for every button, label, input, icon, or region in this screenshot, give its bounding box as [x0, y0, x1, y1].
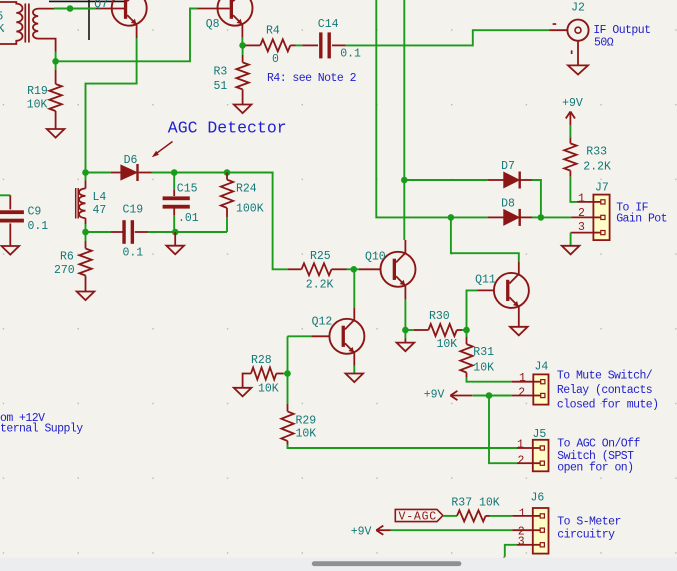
pin R4 right	[290, 44, 295, 46]
node R24 top junction	[224, 169, 231, 176]
pin R37 right	[486, 515, 490, 517]
svg-text:0.1: 0.1	[123, 247, 144, 260]
svg-text:R33: R33	[586, 146, 607, 159]
svg-text:10K: 10K	[473, 361, 494, 374]
svg-text:270: 270	[54, 264, 75, 277]
svg-text:J4: J4	[535, 360, 549, 373]
pin J4-2	[512, 395, 534, 397]
pin Q7 emitter	[136, 25, 138, 38]
svg-text:1: 1	[519, 372, 526, 385]
svg-text:3: 3	[518, 535, 525, 548]
pin D6 anode	[111, 172, 121, 174]
wire Q12 base down	[287, 336, 289, 373]
node Q8 emitter junction	[239, 42, 246, 49]
svg-text:closed for mute): closed for mute)	[557, 399, 659, 412]
svg-text:2: 2	[518, 454, 525, 467]
wire D8 junction to Q11 collector	[451, 217, 519, 262]
svg-text:R29: R29	[296, 414, 317, 427]
svg-text:51: 51	[214, 80, 228, 93]
transistor Q12	[329, 319, 364, 354]
wire V-AGC to R37	[443, 515, 457, 517]
svg-text:R4: R4	[266, 24, 280, 37]
wire R19 top	[55, 61, 57, 70]
pin R28 right	[276, 373, 283, 375]
pin J2 shield	[577, 41, 579, 66]
pin number J2-1 tick	[553, 23, 557, 25]
wire R4 to C14	[296, 44, 303, 46]
resistor R25	[302, 263, 332, 275]
wire bus vertical to D7/Q10	[403, 0, 405, 240]
svg-text:2.2K: 2.2K	[583, 161, 611, 174]
pin R19 bottom	[55, 111, 57, 129]
pin J2 center	[549, 29, 567, 31]
capacitor C9	[0, 210, 24, 214]
wire R29 to J5 pin1	[288, 445, 518, 449]
svg-text:0: 0	[272, 53, 279, 66]
svg-text:C9: C9	[28, 206, 42, 219]
svg-text:Q12: Q12	[312, 315, 333, 328]
pin C15 top	[173, 190, 175, 196]
svg-text:To Mute Switch/: To Mute Switch/	[557, 370, 653, 383]
svg-text:IF Output: IF Output	[593, 24, 650, 37]
svg-text:+9V: +9V	[351, 526, 372, 539]
node Q10 base junction	[351, 266, 358, 273]
svg-text:R37 10K: R37 10K	[451, 496, 499, 509]
node C15 top junction	[171, 169, 178, 176]
svg-text:To S-Meter: To S-Meter	[557, 516, 621, 529]
connector J2 BNC	[567, 20, 588, 41]
pin R4 left	[245, 44, 260, 46]
capacitor C19	[122, 220, 125, 244]
pin L4 top	[85, 181, 87, 189]
wire Q10 emitter down	[404, 299, 406, 330]
pin R33 top	[569, 137, 571, 143]
power +9V arrow (J6)	[376, 529, 390, 531]
ground below J2	[568, 65, 588, 74]
pin R30 right	[457, 329, 462, 331]
resistor R19	[49, 84, 61, 111]
pin J7-1	[577, 201, 593, 203]
wire R28 right	[283, 373, 288, 375]
svg-text:0.1: 0.1	[28, 220, 49, 233]
wire C9 top	[0, 194, 10, 196]
pin Q11 base	[478, 289, 494, 291]
wire J6 pin3	[505, 545, 517, 557]
wire Q8 emitter node	[241, 38, 243, 46]
pin R28 left and ground stem	[243, 374, 251, 388]
ground below Q10	[397, 343, 415, 352]
diode D8	[504, 210, 519, 225]
svg-text:.01: .01	[178, 212, 199, 225]
svg-text:R4: see Note 2: R4: see Note 2	[267, 72, 357, 85]
pin D6 cathode	[139, 172, 152, 174]
ground below C15 node	[166, 246, 184, 255]
wire C19 right	[148, 231, 175, 233]
diode D6	[121, 165, 137, 180]
node R19 top junction	[52, 58, 59, 65]
pin R25 right	[332, 268, 347, 270]
wire R3 top	[242, 45, 244, 55]
wire C15 node to R24 bottom	[175, 231, 227, 233]
svg-text:R30: R30	[429, 310, 450, 323]
wire J7 pin3 to ground	[570, 233, 572, 246]
wire Q10 emitter to ground	[404, 330, 406, 339]
pin R33 bottom	[569, 171, 571, 177]
wire +9V to J6 pin2	[391, 529, 513, 531]
pin Q12 collector	[353, 307, 355, 321]
transformer T5 left winding	[0, 2, 23, 44]
ground below Q11	[510, 327, 528, 336]
node D7 branch junction	[401, 177, 408, 184]
svg-text:50Ω: 50Ω	[594, 37, 614, 50]
wire J4 pin2 branch to J5 pin2	[489, 396, 517, 464]
wire R37 to J6 pin1	[490, 515, 513, 517]
pin R6 top	[85, 241, 87, 249]
scrollbar handle	[312, 561, 462, 566]
svg-text:R24: R24	[236, 182, 257, 195]
transistor Q8	[218, 0, 253, 26]
pin Q10 base	[359, 268, 381, 270]
wire Q7 emitter to D6 node	[86, 38, 137, 173]
wire R30 left	[405, 329, 414, 331]
transformer T5 right winding	[33, 9, 56, 52]
svg-text:ternal Supply: ternal Supply	[0, 423, 83, 436]
svg-text:10K: 10K	[296, 427, 317, 440]
pin Q11 emitter	[518, 307, 520, 327]
pin R31 top	[466, 337, 468, 344]
node J4 pin2 junction	[486, 392, 493, 399]
svg-text:C14: C14	[318, 18, 339, 31]
pin R29 bottom	[287, 441, 289, 445]
connector J5	[533, 440, 549, 472]
wire R30 right	[462, 329, 467, 331]
pin C14 right	[332, 44, 346, 46]
pin D7 anode	[488, 179, 504, 181]
pin Q11 collector	[518, 262, 520, 274]
capacitor C15	[163, 196, 190, 200]
svg-text:3: 3	[578, 221, 585, 234]
connector J7	[593, 195, 609, 241]
pin L4 bottom	[85, 218, 87, 224]
diode D7	[504, 172, 519, 187]
wire Q11 base	[467, 290, 478, 330]
svg-text:0.1: 0.1	[340, 47, 361, 60]
pin J6-1	[512, 515, 532, 517]
svg-text:J2: J2	[571, 1, 585, 14]
inductor L4	[79, 189, 86, 219]
ground below Q12	[346, 374, 364, 383]
power +9V arrow (R33)	[569, 112, 571, 126]
pin R30 left	[414, 329, 428, 331]
pin C9 top	[9, 195, 11, 209]
ground below R19	[47, 129, 65, 138]
wire +9V to J4 pin2	[473, 395, 512, 397]
wire L4 top	[85, 173, 87, 181]
pin R3 top	[242, 55, 244, 62]
transformer T5 core	[24, 4, 26, 43]
svg-text:J7: J7	[595, 182, 609, 195]
svg-text:+9V: +9V	[424, 389, 445, 402]
svg-text:R25: R25	[310, 250, 331, 263]
wire Q10 base node to Q12 collector	[353, 269, 356, 307]
node D6 anode junction	[82, 169, 89, 176]
node C15 bottom junction	[172, 229, 179, 236]
transistor Q7	[112, 0, 147, 26]
svg-text:open for on): open for on)	[557, 461, 633, 474]
resistor R29	[281, 411, 293, 441]
svg-text:circuitry: circuitry	[557, 528, 615, 541]
pin J5-2	[517, 462, 533, 464]
svg-text:R31: R31	[473, 346, 494, 359]
pin R24 top	[226, 173, 228, 180]
svg-text:5: 5	[0, 11, 3, 24]
pin ground stem C15 node	[174, 232, 176, 246]
wire junction to Q10 base	[354, 268, 359, 270]
node Q11 base junction	[463, 327, 470, 334]
resistor R33	[564, 143, 576, 170]
pin R31 bottom	[466, 373, 468, 378]
resistor R30	[428, 324, 456, 336]
wire C19 left	[86, 231, 112, 233]
svg-text:R19: R19	[27, 85, 48, 98]
pin R29 top	[287, 404, 289, 411]
wire Q12 base left	[288, 335, 312, 337]
node D8 anode junction	[448, 214, 455, 221]
wire R24 bottom	[226, 217, 228, 232]
wire J6 pin3 tail	[503, 557, 505, 561]
ground below J7 pin3	[562, 246, 580, 255]
resistor R6	[79, 249, 91, 276]
svg-text:1: 1	[517, 438, 524, 451]
wire R31 top	[466, 330, 468, 337]
pin D8 cathode	[520, 216, 532, 218]
pin R24 bottom	[226, 208, 228, 218]
resistor R31	[460, 344, 472, 372]
global label V-AGC	[395, 509, 443, 521]
wire Q12 emitter	[353, 366, 355, 374]
svg-text:Q8: Q8	[206, 18, 220, 31]
node C19 left junction	[82, 229, 89, 236]
svg-text:C15: C15	[177, 182, 198, 195]
svg-text:K: K	[0, 23, 4, 36]
wire bus vertical to D8	[376, 0, 451, 217]
svg-text:2: 2	[578, 207, 585, 220]
node Q10 emitter junction	[402, 327, 409, 334]
pin C9 bottom	[9, 223, 11, 246]
svg-text:D6: D6	[124, 154, 138, 167]
pin Q10 collector	[404, 240, 406, 253]
svg-text:100K: 100K	[236, 202, 264, 215]
pin J5-1	[517, 447, 533, 449]
ground below R6	[77, 292, 95, 301]
wire D6 cathode to R25 drop	[152, 173, 289, 270]
wire R6 top	[85, 232, 87, 241]
pin D7 cathode	[520, 179, 532, 181]
wire AGC feedback to Q8 base	[56, 9, 198, 62]
svg-text:AGC Detector: AGC Detector	[168, 118, 287, 137]
svg-text:L4: L4	[93, 191, 107, 204]
pin number J2-2 tick	[571, 50, 573, 54]
svg-text:J6: J6	[531, 492, 545, 505]
connector J6	[533, 508, 549, 554]
resistor R28	[251, 368, 276, 380]
pin R19 top	[55, 70, 57, 84]
wire to D8 anode	[451, 216, 488, 218]
wire to D7 anode	[404, 179, 488, 181]
pin Q10 emitter	[404, 286, 406, 300]
svg-text:C19: C19	[123, 204, 144, 217]
power +9V arrow (J4)	[450, 395, 472, 397]
pin J6-3	[517, 544, 533, 546]
resistor R24	[221, 180, 233, 208]
wire to D6 anode	[86, 172, 111, 174]
pin Q12 emitter	[353, 353, 355, 366]
svg-text:10K: 10K	[437, 338, 458, 351]
svg-text:D7: D7	[501, 160, 515, 173]
transistor Q11	[494, 273, 529, 308]
pin Q12 base	[311, 335, 329, 337]
wire transformer to Q7 base	[54, 8, 96, 10]
pin C19 right	[135, 231, 148, 233]
pin C15 bottom	[173, 209, 175, 216]
resistor R3	[236, 62, 248, 89]
ground below C9	[2, 246, 20, 255]
svg-text:1: 1	[519, 507, 526, 520]
resistor R4	[260, 39, 290, 51]
svg-text:R28: R28	[251, 354, 272, 367]
pin D8 anode	[488, 216, 504, 218]
svg-text:Relay (contacts: Relay (contacts	[557, 384, 652, 397]
pin R6 bottom	[85, 276, 87, 292]
pin J6-2	[512, 529, 532, 531]
pin R25 left	[288, 268, 302, 270]
svg-text:10K: 10K	[258, 383, 279, 396]
svg-text:R6: R6	[60, 251, 74, 264]
wire C15 top	[173, 173, 175, 191]
transistor Q10	[381, 252, 416, 287]
wire D8 cathode node	[532, 216, 541, 218]
svg-text:Q7: Q7	[94, 0, 108, 11]
scrollbar track	[0, 558, 677, 571]
wire R25 to junction	[347, 268, 354, 270]
node diode-OR junction	[538, 214, 545, 221]
wire C14 to J2	[346, 30, 550, 45]
wire C15 bottom	[173, 215, 175, 232]
pin J7-3	[571, 232, 594, 234]
svg-text:Gain Pot: Gain Pot	[616, 212, 667, 225]
wire +9V to R33	[569, 125, 571, 137]
svg-text:V-AGC: V-AGC	[399, 510, 438, 523]
pin Q8 emitter	[241, 25, 243, 38]
svg-text:Q11: Q11	[475, 273, 496, 286]
node transformer-Q7 junction	[67, 5, 74, 12]
inductor L4 core	[75, 188, 77, 219]
wire R29 top	[287, 374, 289, 405]
svg-text:2: 2	[518, 387, 525, 400]
svg-text:J5: J5	[533, 428, 547, 441]
pin J7-2	[572, 216, 594, 218]
svg-text:10K: 10K	[27, 99, 48, 112]
svg-text:+9V: +9V	[562, 97, 583, 110]
node Q12 base junction	[284, 370, 291, 377]
arrow to D6	[155, 142, 173, 155]
wire R33 to J7 pin1	[570, 177, 577, 202]
svg-text:Q10: Q10	[365, 251, 386, 264]
pin ground stem Q10	[404, 339, 406, 343]
svg-text:47: 47	[93, 204, 107, 217]
wire D7 cathode down	[532, 180, 541, 217]
wire R31 to J4 pin1	[467, 377, 512, 382]
capacitor C14	[319, 32, 322, 58]
pin Q7 base	[96, 8, 125, 10]
pin R3 bottom	[242, 89, 244, 104]
ground below R3	[234, 105, 252, 114]
pin C14 left	[302, 44, 318, 46]
svg-text:To AGC On/Off: To AGC On/Off	[557, 438, 640, 451]
wire to J7 pin2	[541, 216, 572, 218]
resistor R37	[457, 510, 486, 521]
ground below R28	[234, 388, 252, 397]
svg-text:D8: D8	[501, 198, 515, 211]
svg-text:R3: R3	[214, 65, 228, 78]
pin C19 left	[111, 231, 126, 233]
svg-text:2.2K: 2.2K	[306, 279, 334, 292]
connector J4	[533, 374, 548, 404]
pin Q8 base	[198, 8, 230, 10]
cursor crosshair	[49, 0, 124, 2]
pin J4-1	[512, 381, 534, 383]
wire L4 bottom	[85, 224, 87, 232]
svg-text:1: 1	[578, 192, 585, 205]
wire transformer secondary down	[55, 52, 57, 62]
